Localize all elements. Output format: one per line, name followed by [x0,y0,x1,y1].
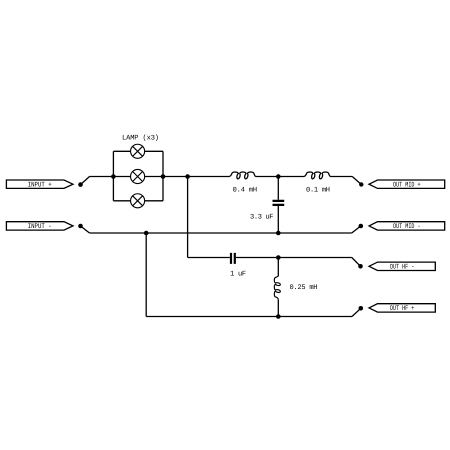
svg-text:OUT MID -: OUT MID - [393,223,421,231]
wire lamp top branch [113,150,163,152]
net flag INPUT + [6,180,73,189]
capacitor C2 1 uF plates [231,253,235,264]
capacitor C1 3.3 uF plates [273,201,285,205]
svg-text:INPUT -: INPUT - [28,223,52,231]
net flag INPUT - [6,222,73,231]
inductor L4 0.4 mH [229,172,255,179]
wire lamp right branch vertical [162,151,164,201]
junction row D / 0.25mH branch [276,314,281,319]
capacitor C1 3.3 uF branch wires [277,177,279,234]
switch contact INPUT + [78,177,89,187]
svg-text:0.4 mH: 0.4 mH [233,186,258,194]
junction row B / vertical to row D [144,231,149,236]
net flag OUT HF - [369,262,435,271]
net flag OUT MID + [369,180,445,189]
wire vertical row A to row C [187,177,189,258]
switch contact OUT HF - [352,258,363,269]
lamp L3 (bottom) [131,194,145,208]
svg-text:0.25 mH: 0.25 mH [290,284,318,292]
junction row A / 3.3uF branch [276,174,281,179]
switch contact INPUT - [78,224,89,233]
junction row A / vertical to row C [185,174,190,179]
svg-text:OUT HF +: OUT HF + [390,305,415,313]
lamp L1 (top) [131,144,145,158]
junction row B / 3.3uF branch [276,231,281,236]
wire row B (INPUT- to OUT MID-) [90,232,352,234]
switch contact OUT MID + [352,177,363,187]
switch contact OUT HF + [352,306,363,317]
svg-text:3.3 uF: 3.3 uF [250,214,274,222]
inductor L6 0.25 mH branch wires [277,258,279,317]
switch contact OUT MID - [352,224,363,233]
junction lamp right [161,174,166,179]
svg-text:1 uF: 1 uF [230,270,246,278]
junction row C / 0.25mH branch [276,255,281,260]
svg-text:INPUT +: INPUT + [28,181,52,189]
inductor L6 0.25 mH coil [274,276,280,299]
wire row D (bottom to OUT HF+) [146,316,352,318]
svg-text:OUT HF -: OUT HF - [390,264,415,272]
junction lamp left [111,174,116,179]
wire lamp bottom branch [113,200,163,202]
svg-text:0.1 mH: 0.1 mH [306,186,330,194]
wire vertical row B to row D [145,233,147,317]
svg-text:OUT MID +: OUT MID + [393,181,421,189]
wire lamp left branch vertical [112,151,114,201]
lamp L2 (middle) [131,169,145,183]
svg-text:LAMP (x3): LAMP (x3) [122,133,159,142]
wire row A (INPUT+ to OUT MID+) [90,176,353,178]
inductor L5 0.1 mH [304,172,330,179]
net flag OUT MID - [369,222,445,231]
wire row C (1uF row to OUT HF-) [188,257,352,259]
net flag OUT HF + [369,304,435,313]
